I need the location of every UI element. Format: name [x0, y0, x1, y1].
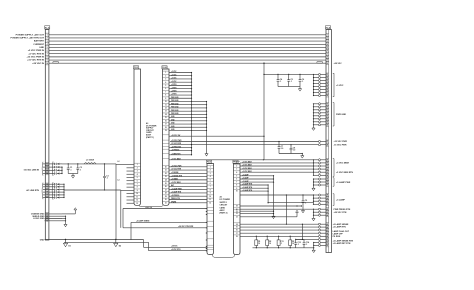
wire +15 VDC PWR from P4 pin 20 to part2 P5: [163, 164, 170, 166]
svg-text:PWR GND: PWR GND: [171, 107, 179, 109]
svg-text:12: 12: [46, 167, 48, 169]
svg-text:1.0: 1.0: [293, 150, 296, 152]
capacitor C3: [104, 163, 105, 164]
RC network row (bottom middle): [253, 247, 314, 249]
AC line return pin row 2: [53, 186, 55, 188]
svg-text:10: 10: [236, 191, 238, 193]
svg-text:PRESS RTN: PRESS RTN: [171, 198, 181, 200]
capacitor C5: [288, 74, 289, 75]
wire from part1 bar to node vertical: [169, 135, 264, 137]
wire +15 MEM from P4 pin 24 to part2 P5: [163, 177, 170, 179]
filter pin row press rtn: [313, 209, 314, 210]
part2 P5 input pin: [207, 212, 214, 214]
svg-text:29: 29: [326, 159, 328, 161]
part2 P5 input pin: [207, 246, 214, 248]
part2 P5 input pin: [207, 238, 214, 240]
svg-text:ASSY: ASSY: [220, 209, 226, 212]
chassis ground row 2: [45, 215, 63, 217]
wire input to P3 pin 7: [134, 182, 141, 184]
svg-text:A1: A1: [220, 196, 222, 199]
svg-text:31: 31: [165, 202, 167, 204]
svg-text:20: 20: [165, 166, 167, 168]
wire +5 LAMP part2 to bus: [234, 173, 241, 175]
vertical feeder x116: [115, 164, 117, 240]
part2 P5 input pin: [207, 220, 214, 222]
capacitor C6: [299, 74, 300, 75]
wire feed middle group: [240, 208, 314, 210]
svg-text:115 VAC LINE IN: 115 VAC LINE IN: [23, 168, 39, 171]
svg-text:10: 10: [269, 243, 271, 245]
svg-text:+5 VDC MEM: +5 VDC MEM: [242, 168, 252, 170]
wire +5 VDC from P4 pin 2 to bus: [163, 73, 170, 75]
svg-text:-15 VDC PWR: -15 VDC PWR: [171, 169, 182, 171]
svg-text:26: 26: [326, 124, 328, 126]
filter pin row +5 VDC MEM: [313, 175, 314, 176]
capacitor C4: [277, 74, 278, 75]
wire PWR GND from P4 pin 12 to bus: [163, 106, 170, 108]
filter pin row +28 LAMP ON: [313, 245, 314, 246]
svg-text:.1: .1: [70, 169, 72, 171]
svg-text:+15 VDC RTN IN: +15 VDC RTN IN: [27, 60, 44, 62]
part2 pin for lamp signal row: [234, 228, 241, 230]
svg-text:PWR GND: PWR GND: [171, 110, 179, 112]
svg-text:PWR GND: PWR GND: [336, 114, 347, 116]
svg-text:31: 31: [326, 166, 328, 168]
wire bus segment to ground bus: [192, 126, 207, 128]
svg-text:10: 10: [46, 63, 48, 65]
filter pin row PWR GND: [313, 106, 314, 107]
svg-text:12: 12: [136, 200, 138, 202]
capacitor C8 on -15 VDC PWR: [290, 144, 291, 145]
bus joining AC return rows: [63, 184, 65, 197]
AC return wire to card: [64, 189, 121, 191]
svg-text:P3 J3: P3 J3: [134, 67, 138, 69]
svg-text:25: 25: [165, 183, 167, 185]
wire +5 LAMP RTN part2 to bus: [234, 189, 241, 191]
junction bus for AC input rows 2-4: [61, 167, 63, 173]
wire bus segment to ground bus: [192, 117, 207, 119]
filter pin row PWR GND: [313, 115, 314, 116]
wire +28 PRESS from P4 to bus: [163, 148, 170, 150]
svg-text:+5 VDC MEM: +5 VDC MEM: [336, 163, 349, 165]
svg-text:POWER SUPPLY +28V RTN OUT: POWER SUPPLY +28V RTN OUT: [11, 38, 45, 40]
svg-text:+5 VDC MEM RTN: +5 VDC MEM RTN: [336, 172, 354, 174]
wire input to P3 pin 12: [134, 198, 141, 200]
svg-text:27: 27: [165, 189, 167, 191]
inductor L1: [84, 163, 96, 164]
filter pin row +5 VDC MEM: [313, 165, 314, 166]
svg-text:+5 MEM RTN: +5 MEM RTN: [171, 153, 181, 155]
joining wire and ground for C7 C8: [279, 153, 302, 155]
svg-text:10: 10: [292, 243, 294, 245]
svg-text:+5 VDC: +5 VDC: [171, 78, 177, 80]
svg-text:+28 PRS RTN: +28 PRS RTN: [171, 146, 182, 148]
svg-text:+5 VDC MEM: +5 VDC MEM: [242, 165, 252, 167]
circuit breaker symbol on wire near J2: [317, 61, 323, 63]
svg-text:17: 17: [165, 124, 167, 126]
wire +15 VDC PWR from A1 card to J2: [170, 141, 318, 143]
svg-text:.1: .1: [280, 81, 282, 83]
svg-text:10: 10: [165, 101, 167, 103]
filter pin row PWR GND: [313, 121, 314, 122]
svg-text:CIRCUIT: CIRCUIT: [220, 205, 229, 207]
svg-text:19: 19: [165, 130, 167, 132]
svg-text:+5 VDC MEM: +5 VDC MEM: [171, 182, 181, 184]
ground terminal E1: [65, 240, 67, 244]
svg-text:10: 10: [326, 63, 328, 65]
svg-text:12: 12: [165, 108, 167, 110]
wire +5 VDC from P4 pin 1 to bus: [163, 70, 170, 72]
svg-text:.1: .1: [281, 243, 282, 245]
A1 card part 2 outline connecting bottom: [212, 255, 234, 258]
second return wire stepped: [64, 241, 149, 243]
svg-text:GND: GND: [39, 47, 44, 49]
wire GND from P4 pin 16 to bus: [163, 118, 170, 120]
svg-text:22: 22: [326, 112, 328, 114]
ground for C4-C6: [299, 87, 301, 89]
svg-text:L3: L3: [118, 179, 120, 181]
svg-text:+15 VDC PWR IN: +15 VDC PWR IN: [27, 56, 45, 58]
wire bus segment to ground bus: [192, 100, 207, 102]
svg-text:.1: .1: [298, 244, 300, 246]
wire input to P3 pin 9: [134, 188, 141, 190]
svg-text:20: 20: [46, 197, 48, 199]
svg-text:10: 10: [209, 196, 211, 198]
wire +5 VDC MEM part2 to J2: [234, 161, 241, 163]
svg-text:E2: E2: [119, 246, 121, 248]
vertical tap from +5 LAMP SENSE row: [301, 224, 303, 239]
chassis ground row 4: [45, 220, 63, 222]
filter pin row +5 LAMP: [313, 204, 314, 205]
resistor R2: [267, 236, 268, 237]
svg-text:28: 28: [326, 144, 328, 146]
filter pin row +5 LAMP: [313, 194, 314, 195]
svg-text:PS RUN: PS RUN: [333, 236, 341, 238]
svg-text:1: 1: [47, 35, 48, 37]
wire part2 to bus x273: [234, 211, 241, 213]
svg-text:13: 13: [236, 216, 238, 218]
wire -15 VDC PWR from A1 card to J2: [170, 144, 318, 146]
A1 DC power supply circuit card assy part 1 - left edge connector P2: [134, 69, 141, 205]
chassis ground row 1: [45, 213, 63, 215]
svg-text:+5 VDC MEM: +5 VDC MEM: [242, 171, 252, 173]
filter pin row +5 LAMP: [313, 198, 314, 199]
wire PWR GND from P4 pin 10 to bus: [163, 99, 170, 101]
part2 pin for lamp signal row: [234, 222, 241, 224]
svg-text:11: 11: [46, 164, 48, 166]
svg-text:38: 38: [326, 195, 328, 197]
wire PWR GND from P4 pin 9 to bus: [163, 96, 170, 98]
svg-text:18: 18: [326, 95, 328, 97]
svg-text:+28 VDC: +28 VDC: [171, 246, 178, 248]
capacitor C14 bottom right: [303, 238, 305, 240]
svg-text:50: 50: [326, 239, 328, 241]
svg-text:+28 PRESS: +28 PRESS: [171, 149, 179, 151]
wire from bus x268 to J2 +5 LAMP row: [268, 202, 313, 204]
svg-text:11: 11: [165, 104, 167, 106]
svg-text:+15 MEM: +15 MEM: [171, 179, 178, 181]
wire GND from P4 pin 17 to bus: [163, 122, 170, 124]
part2 P5 input pin: [207, 209, 214, 211]
svg-text:+5 VDC RTN IN: +5 VDC RTN IN: [28, 53, 44, 55]
AC line input pin row 2: [53, 166, 55, 168]
svg-text:7: 7: [327, 53, 328, 55]
svg-text:+5 VDC: +5 VDC: [171, 71, 177, 73]
svg-text:POWER SUPPLY +28V OUT: POWER SUPPLY +28V OUT: [16, 34, 45, 36]
svg-text:+5 VDC: +5 VDC: [171, 74, 177, 76]
svg-text:.1: .1: [306, 244, 308, 246]
AC line return pin row 3: [53, 189, 55, 191]
svg-text:.1: .1: [106, 178, 108, 180]
wire input to P3 pin 8: [134, 185, 141, 187]
wire from node x264 to filter caps: [264, 73, 314, 75]
svg-text:16: 16: [236, 230, 238, 232]
svg-text:32: 32: [326, 169, 328, 171]
svg-text:DC POWER: DC POWER: [220, 199, 231, 201]
svg-text:16: 16: [165, 120, 167, 122]
wire part2 to bus x273: [234, 209, 241, 211]
svg-text:18: 18: [236, 236, 238, 238]
wire AC row1 to L1 and beyond: [62, 163, 116, 165]
svg-text:+5 LAMP RET RTN: +5 LAMP RET RTN: [333, 242, 351, 245]
wire from node to +5 VDC MEM bus: [263, 159, 313, 161]
filter pin row PWR GND: [313, 109, 314, 110]
svg-text:+5 VDC MEM: +5 VDC MEM: [171, 158, 181, 160]
cable bracket group 1: [41, 162, 44, 176]
part2 P5 input pin: [207, 249, 214, 251]
wire input to P3 pin 2: [134, 165, 141, 167]
wire BAT from P4 pin 26 to part2 P5: [163, 184, 170, 186]
wire input to P3 pin 1: [134, 162, 141, 164]
svg-text:P1 J1: P1 J1: [45, 27, 49, 29]
svg-text:37: 37: [326, 185, 328, 187]
svg-text:+28V ON: +28V ON: [145, 207, 153, 209]
A1 card part 2 - left edge connector P5: [207, 164, 214, 255]
svg-text:39: 39: [326, 198, 328, 200]
filter pin row +5 LAMP PWR: [313, 181, 314, 182]
svg-text:+28 VDC: +28 VDC: [334, 63, 343, 65]
AC line return pin row 4: [53, 191, 55, 193]
svg-text:+5 LAMP PWR: +5 LAMP PWR: [336, 181, 351, 184]
wire +5 LAMP PWR from P4 pin 27 to part2 P5: [163, 187, 170, 189]
AC line input pin row 1: [53, 163, 55, 165]
svg-text:AC LINE RTN: AC LINE RTN: [26, 189, 39, 192]
svg-text:11: 11: [136, 196, 138, 198]
long ground wire: [45, 239, 144, 241]
wire GND from P4 pin 18 to bus: [163, 125, 170, 127]
wires part1 to part2 left bar: [207, 164, 214, 166]
chassis ground row 3: [45, 218, 63, 220]
svg-text:19: 19: [236, 206, 238, 208]
vertical node wire from +28 line down to mem bus: [263, 63, 265, 160]
svg-text:2: 2: [327, 38, 328, 40]
wire lamp signal row to J2: [240, 232, 318, 234]
filter pin row +5 LAMP PWR: [313, 178, 314, 179]
svg-text:PWR GND: PWR GND: [171, 113, 179, 115]
wire input to P3 pin 4: [134, 172, 141, 174]
wire input to P3 pin 3: [134, 169, 141, 171]
svg-text:3: 3: [47, 41, 48, 43]
svg-text:6: 6: [327, 50, 328, 52]
svg-text:-15 VDC PWR: -15 VDC PWR: [334, 145, 347, 147]
connector J2 (right output connector bar): [326, 30, 331, 253]
capacitor C7 on +15 VDC PWR: [278, 141, 279, 142]
ground bus for chassis rows: [65, 216, 67, 222]
wire bus segment to ground bus: [192, 107, 207, 109]
wire +5 LAMP part2 to bus: [234, 180, 241, 182]
part2 pin for lamp signal row: [234, 234, 241, 236]
svg-text:12: 12: [209, 202, 211, 204]
svg-text:35: 35: [326, 179, 328, 181]
svg-text:PWR GND: PWR GND: [171, 100, 179, 102]
AC line return pin row 6: [53, 196, 55, 198]
AC line input pin row 4: [53, 172, 55, 174]
svg-text:21: 21: [165, 170, 167, 172]
svg-text:P2 J2: P2 J2: [326, 27, 330, 29]
svg-text:29: 29: [165, 196, 167, 198]
svg-text:+5 LAMP: +5 LAMP: [336, 198, 345, 201]
wire +28 PRESS from P4 pin 29 to part2 P5: [163, 194, 170, 196]
svg-text:PWR GND: PWR GND: [171, 103, 179, 105]
filter pin row PWR GND: [313, 103, 314, 104]
svg-text:17: 17: [326, 92, 328, 94]
ground below J2 bottom rows: [313, 248, 315, 250]
svg-text:2: 2: [47, 38, 48, 40]
J2 pin group +5 LAMP: [313, 195, 315, 204]
svg-text:CARD: CARD: [220, 206, 226, 209]
filter pin row press rtn: [313, 212, 314, 213]
connector group AC line return: [51, 182, 54, 199]
svg-text:GND: GND: [40, 239, 45, 241]
filter pin row +5 VDC MEM: [313, 172, 314, 173]
svg-text:3: 3: [327, 41, 328, 43]
wire PWR GND from P4 pin 13 to bus: [163, 109, 170, 111]
wire GND from P4 pin 15 to bus: [163, 115, 170, 117]
filter pin row +5 VDC MEM: [313, 169, 314, 170]
svg-text:27: 27: [326, 141, 328, 143]
bus collecting part1 rows: [191, 73, 193, 155]
svg-text:30: 30: [326, 163, 328, 165]
filter pin row +5 VDC MEM: [313, 162, 314, 163]
filter pin row +5 VDC: [313, 80, 314, 81]
svg-text:+28 PRESS: +28 PRESS: [171, 195, 179, 197]
hook arrow on chassis row 1: [62, 213, 75, 215]
svg-text:.1: .1: [291, 81, 293, 83]
wire with up-arrow terminal: [234, 214, 241, 216]
filter pin row +5 VDC MEM: [313, 159, 314, 160]
svg-text:26: 26: [165, 186, 167, 188]
ground below PWR GND group: [313, 126, 315, 128]
svg-text:+5 RTN: +5 RTN: [171, 87, 177, 89]
svg-text:+5 VDC: +5 VDC: [171, 81, 177, 83]
filter pin row press rtn: [313, 215, 314, 216]
svg-text:+5 SENSE RTN: +5 SENSE RTN: [171, 175, 183, 177]
svg-text:+5 LAMP SENSE: +5 LAMP SENSE: [136, 220, 150, 223]
svg-text:13: 13: [165, 111, 167, 113]
wire +5 RTN from P4 pin 7 to bus: [163, 89, 170, 91]
A1 card part 1 outline connecting bottom: [139, 205, 162, 206]
svg-text:8: 8: [327, 57, 328, 59]
svg-text:SUPPLY: SUPPLY: [220, 202, 228, 204]
svg-text:19: 19: [326, 103, 328, 105]
cable bracket group 2: [41, 183, 44, 200]
svg-text:L1 100UH: L1 100UH: [86, 160, 95, 162]
J1 pin cell dividers (top section): [45, 32, 49, 34]
svg-text:11: 11: [327, 74, 329, 76]
svg-text:CURRENT: CURRENT: [33, 44, 44, 46]
svg-text:.1: .1: [80, 169, 82, 171]
wire input to P3 pin 13: [134, 201, 141, 203]
wire +5 SENSE RTN from P4 pin 23 to part2 P5: [163, 174, 170, 176]
wire bus segment to ground bus: [192, 120, 207, 122]
filter pin row +5 VDC: [313, 77, 314, 78]
svg-text:17: 17: [236, 233, 238, 235]
wire PWR GND from P4 pin 14 to bus: [163, 112, 170, 114]
wire +5 VDC MEM from P4 pin 25 to part2 P5: [163, 181, 170, 183]
wire +5 LAMP RTN part2 to bus: [234, 186, 241, 188]
svg-text:+5 VDC PWR IN: +5 VDC PWR IN: [28, 50, 45, 52]
wire +5 VDC MEM part2 to J2: [234, 167, 241, 169]
part2 P5 input pin: [207, 231, 214, 233]
circuit breaker symbol on +28 VDC IN wire (left): [53, 61, 59, 63]
wire +5 VDC MEM part2 to J2: [234, 170, 241, 172]
wire input to P3 pin 5: [134, 175, 141, 177]
svg-text:+5 SENSE: +5 SENSE: [171, 172, 178, 174]
J2 bottom rows from ground bus: [313, 243, 315, 249]
svg-text:(PART 1): (PART 1): [146, 136, 154, 139]
svg-text:.1: .1: [302, 81, 304, 83]
A1 card part 2 - right edge connector P6: [234, 164, 241, 255]
svg-text:5: 5: [327, 47, 328, 49]
long wire lamp sense: [131, 221, 207, 223]
capacitor C13 bottom right: [295, 239, 296, 240]
svg-text:11: 11: [209, 199, 211, 201]
wire lamp signal row to J2: [240, 223, 318, 225]
wire bus segment to ground bus: [192, 113, 207, 115]
svg-text:15: 15: [165, 117, 167, 119]
wire +5 LAMP RTN part2 to bus: [234, 183, 241, 185]
svg-text:36: 36: [326, 182, 328, 184]
wire SPARE from P4 pin 31 to part2 P5: [163, 200, 170, 202]
svg-text:21: 21: [326, 109, 328, 111]
ground below PWR PRESS RTN rows: [313, 216, 315, 218]
part2 P5 input pin: [207, 206, 214, 208]
wire +5 VDC from P4 pin 3 to bus: [163, 77, 170, 79]
wire +5 RTN from P4 pin 8 to bus: [163, 93, 170, 95]
filter pin row +5 VDC: [313, 95, 314, 96]
wire bus segment to ground bus: [192, 104, 207, 106]
svg-text:9: 9: [47, 60, 48, 62]
ground below +5 LAMP PWR group: [313, 186, 315, 188]
wire +5 VDC MEM long from part1 to J2 bus: [163, 157, 170, 159]
wire +5 VDC from P4 pin 4 to bus: [163, 80, 170, 82]
svg-text:12: 12: [236, 213, 238, 215]
wire bus segment to ground bus: [192, 129, 207, 131]
svg-text:L2: L2: [118, 161, 120, 163]
wire +5 MEM RTN from P4 to bus: [163, 152, 170, 154]
J2 pin group +5 LAMP PWR: [313, 179, 315, 186]
ground terminal E2: [115, 239, 116, 240]
svg-text:+5 RTN: +5 RTN: [171, 90, 177, 92]
svg-text:1: 1: [327, 34, 328, 36]
svg-text:16: 16: [326, 89, 328, 91]
svg-text:28: 28: [165, 193, 167, 195]
filter pin row +5 LAMP: [313, 201, 314, 202]
wire +5 SENSE from P4 pin 22 to part2 P5: [163, 171, 170, 173]
filter pin row +5 VDC: [313, 86, 314, 87]
AC line input pin row 3: [53, 169, 55, 171]
connector group AC line input: [51, 162, 54, 176]
